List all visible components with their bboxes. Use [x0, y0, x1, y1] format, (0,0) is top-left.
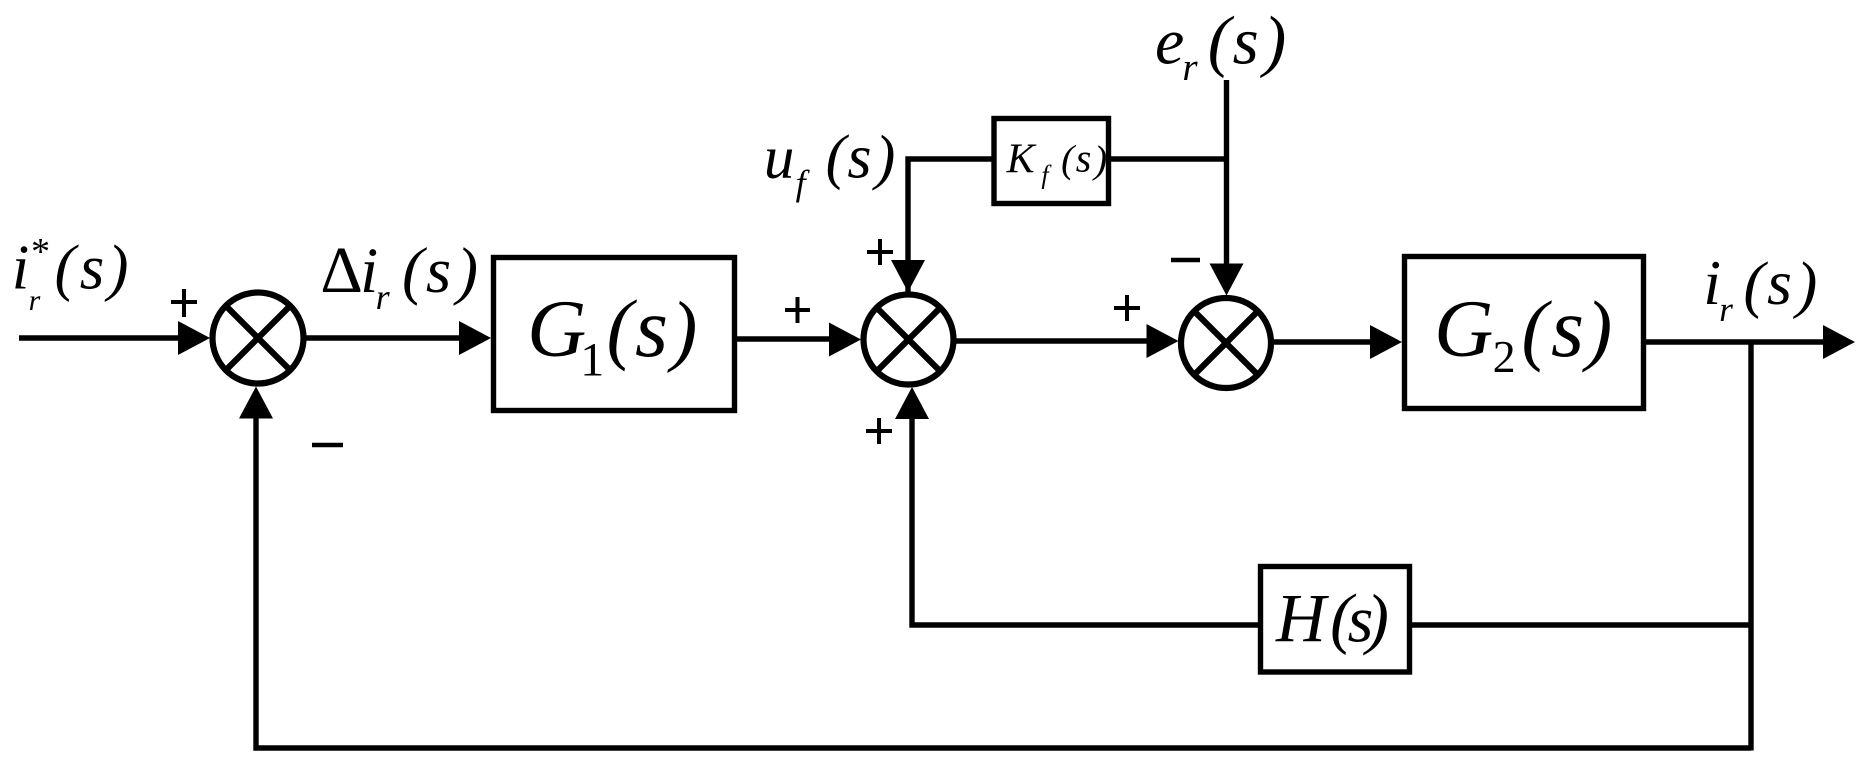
svg-text:G: G	[1434, 283, 1493, 374]
svg-text:): )	[1582, 286, 1612, 373]
block H	[1261, 567, 1410, 673]
arrowhead into G1	[459, 321, 491, 355]
svg-text:): )	[105, 233, 129, 303]
summing junction J2	[864, 295, 954, 385]
svg-text:r: r	[376, 277, 391, 317]
arrowhead into J2 left	[829, 323, 861, 357]
block G2	[1405, 257, 1644, 409]
block G1	[494, 258, 735, 411]
wire: output tap vertical down	[1748, 342, 1753, 751]
svg-text:(: (	[607, 286, 638, 373]
wire: G1 to J2	[737, 336, 833, 341]
svg-text:s: s	[1767, 247, 1792, 318]
plus sign before J3	[1114, 295, 1140, 321]
svg-text:i: i	[12, 233, 30, 303]
wire: J1 to G1	[306, 335, 462, 340]
svg-text:f: f	[1041, 161, 1052, 190]
wire: Kf box to er line	[1111, 156, 1228, 161]
wire: outer feedback bottom line and vertical up to J1 bottom	[256, 414, 1751, 748]
minus sign at J3 top input	[1171, 258, 1200, 263]
svg-text:*: *	[29, 231, 48, 273]
svg-text:s: s	[426, 235, 451, 307]
label G1(s)	[527, 281, 697, 387]
svg-text:Δ: Δ	[320, 234, 362, 307]
plus sign at J2 bottom input	[866, 418, 892, 444]
svg-text:s: s	[847, 124, 871, 192]
minus sign at J1 bottom input	[312, 443, 343, 448]
svg-text:(: (	[826, 124, 850, 191]
svg-text:G: G	[527, 283, 586, 374]
svg-text:K: K	[1006, 136, 1037, 182]
label i*r(s) input	[12, 231, 129, 317]
wire: input line to summing junction J1	[19, 335, 181, 340]
label H(s)	[1275, 579, 1389, 656]
wire: er vertical into J3	[1224, 80, 1229, 267]
svg-text:): )	[1792, 249, 1817, 320]
plus sign at J1 left input	[171, 289, 197, 317]
wire: uf corner to Kf box	[908, 159, 992, 292]
wire: J2 to J3	[954, 338, 1150, 343]
label delta ir(s)	[320, 234, 478, 317]
label Kf(s)	[1006, 136, 1108, 190]
block Kf	[994, 119, 1109, 204]
svg-text:r: r	[1182, 46, 1198, 89]
svg-text:(: (	[1522, 286, 1553, 373]
wire: H feedback left segment and vertical up to J2 bottom	[912, 415, 1258, 625]
svg-text:u: u	[764, 125, 795, 192]
svg-text:f: f	[796, 163, 811, 203]
plus sign at J2 top input	[867, 239, 893, 265]
arrowhead into G2	[1370, 325, 1402, 359]
svg-text:r: r	[1719, 290, 1733, 329]
wire: H feedback right segment	[1412, 622, 1751, 627]
wire: J3 to G2	[1271, 339, 1373, 344]
svg-text:s: s	[1233, 5, 1259, 79]
summing junction J3	[1181, 298, 1271, 388]
svg-text:(: (	[1208, 2, 1235, 78]
svg-text:(: (	[1061, 138, 1076, 181]
plus sign before J2	[785, 297, 810, 323]
label G2(s)	[1434, 281, 1612, 382]
label ir(s) output	[1703, 247, 1817, 329]
arrowhead into J1 bottom	[239, 387, 273, 419]
svg-text:s: s	[635, 281, 668, 375]
arrowhead into J2 top	[891, 260, 925, 292]
svg-text:2: 2	[1493, 331, 1516, 382]
svg-text:r: r	[29, 284, 41, 317]
svg-text:): )	[1362, 580, 1389, 656]
svg-text:): )	[1259, 2, 1286, 78]
svg-text:1: 1	[580, 334, 604, 387]
svg-text:s: s	[1551, 281, 1584, 375]
svg-text:(: (	[55, 233, 80, 303]
svg-text:s: s	[80, 233, 105, 303]
arrowhead into J2 bottom	[895, 387, 929, 419]
svg-text:): )	[872, 125, 895, 192]
svg-text:s: s	[1076, 136, 1092, 181]
arrowhead into J3 left	[1147, 324, 1179, 358]
svg-text:): )	[667, 287, 697, 374]
label er(s)	[1155, 2, 1286, 89]
svg-text:e: e	[1155, 6, 1184, 79]
svg-text:): )	[1092, 139, 1107, 182]
arrowhead output	[1823, 325, 1855, 359]
svg-text:H: H	[1275, 580, 1329, 656]
label uf(s)	[764, 124, 895, 203]
svg-text:): )	[452, 235, 478, 307]
svg-text:(: (	[402, 235, 427, 307]
arrowhead into J3 top	[1210, 264, 1244, 296]
arrowhead into J1 left	[178, 321, 210, 355]
summing junction J1	[213, 293, 304, 384]
svg-text:(: (	[1743, 249, 1768, 320]
wire: G2 to output	[1646, 339, 1826, 344]
